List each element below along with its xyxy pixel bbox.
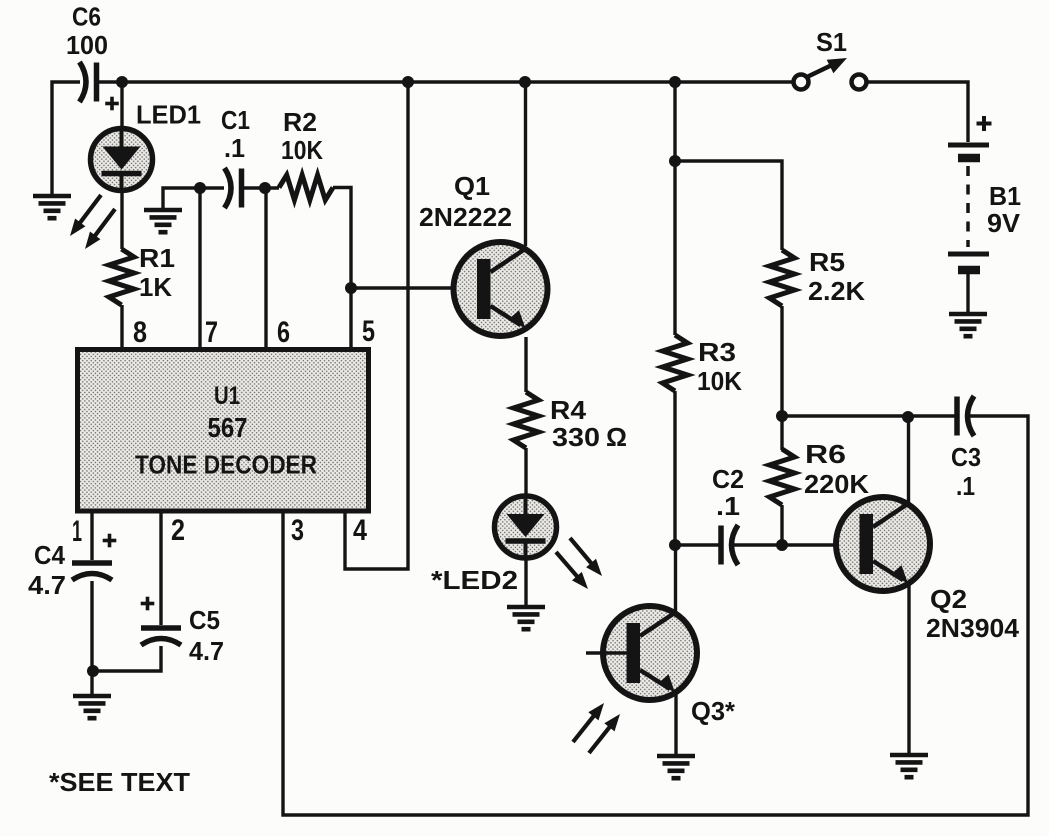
svg-text:*SEE TEXT: *SEE TEXT (49, 767, 190, 797)
svg-text:C4: C4 (34, 540, 65, 570)
svg-text:C2: C2 (712, 464, 744, 494)
wire C6 left lead and drop to ground (52, 82, 80, 194)
wire +V to pin4 jog (345, 82, 408, 569)
pin number 1 (72, 515, 82, 548)
wire LED2 to ground (524, 558, 527, 605)
LED LED2 (495, 496, 557, 558)
label S1 (816, 27, 847, 57)
wire C2 node to Q3 collector (674, 545, 677, 613)
battery B1 cell1 long plate (948, 143, 989, 148)
svg-text:330: 330 (552, 422, 600, 452)
label LED1 (136, 100, 201, 130)
wire S1 to battery (867, 82, 968, 142)
label R3 value 10K (697, 366, 742, 396)
label B1 (989, 181, 1021, 211)
switch S1 arm (808, 58, 847, 77)
wire rail to R3 (673, 82, 676, 335)
svg-text:.1: .1 (956, 471, 975, 501)
node dot pin5/Q1 base (345, 282, 357, 294)
svg-text:S1: S1 (816, 27, 847, 57)
label Q3* (691, 696, 736, 726)
svg-text:2N3904: 2N3904 (926, 613, 1020, 643)
label 100 (66, 30, 108, 60)
LED LED1 (91, 129, 153, 191)
wire pin 6 (264, 188, 267, 350)
svg-text:4: 4 (353, 514, 367, 547)
label 2N3904 (926, 613, 1020, 643)
pin number 8 (133, 316, 147, 349)
label Q2 (930, 584, 967, 614)
resistor R6 (770, 449, 795, 505)
pin number 3 (291, 514, 304, 547)
svg-text:5: 5 (362, 315, 375, 348)
switch S1 pole (794, 75, 809, 90)
node dot pin6/C1/R2 (259, 182, 271, 194)
label R2 (283, 107, 317, 137)
resistor R3 (663, 335, 688, 391)
node dot C4/C5 ground (87, 665, 99, 677)
svg-text:4.7: 4.7 (28, 570, 66, 600)
wire C4 to ground node (90, 581, 93, 694)
label R5 (809, 247, 845, 277)
wire pin 7 (198, 188, 201, 350)
pin number 5 (362, 315, 375, 348)
wire R4 to LED2 (524, 448, 527, 497)
svg-text:9V: 9V (987, 208, 1021, 238)
label C6 (72, 2, 101, 32)
svg-text:Q2: Q2 (930, 584, 967, 614)
wire Q3 emitter to ground (674, 693, 677, 754)
svg-text:Ω: Ω (606, 422, 627, 452)
svg-text:567: 567 (208, 412, 248, 443)
ground below C4 (73, 696, 111, 718)
wire pin 2 to C5 (159, 511, 162, 625)
wire rail to R6 (780, 416, 783, 450)
wire ground stub to pin7 node (163, 188, 200, 208)
svg-text:C1: C1 (221, 105, 250, 135)
node dot rail/pin4 branch (402, 76, 414, 88)
polarity + of C5 (141, 597, 155, 611)
capacitor C2 (721, 525, 738, 565)
ground below LED2 (507, 607, 545, 629)
svg-text:R4: R4 (550, 395, 587, 425)
wire C6 to node (99, 80, 122, 83)
wire R5 to lower rail (780, 306, 783, 416)
wire C3 to right edge loop (283, 416, 1028, 815)
transistor Q3 (603, 606, 697, 700)
light arrow LED1 a (70, 195, 101, 236)
node dot rail/Q1 collector (519, 76, 531, 88)
pin number 6 (277, 316, 290, 349)
label C4 (34, 540, 65, 570)
wire R1 to pin 8 (120, 305, 123, 350)
svg-text:LED1: LED1 (136, 100, 201, 130)
capacitor C3 (957, 396, 974, 436)
label R6 value 220K (804, 469, 869, 499)
wire R2 to pin 5 (333, 188, 351, 351)
label 1K (139, 272, 172, 302)
battery B1 dashed link (966, 166, 970, 247)
svg-text:4.7: 4.7 (189, 636, 224, 666)
ground below Q3 (657, 756, 695, 778)
svg-text:.1: .1 (224, 133, 245, 163)
pin number 7 (205, 316, 218, 349)
polarity + of C4 (103, 534, 117, 548)
svg-text:R6: R6 (805, 439, 846, 469)
label C2 value .1 (716, 491, 740, 521)
label Q1 (454, 171, 490, 201)
label C4 value 4.7 (28, 570, 66, 600)
wire node to C1 (200, 186, 224, 189)
wire C1 to node (244, 186, 279, 189)
wire Q1 collector (524, 82, 527, 246)
label R2 value 10K (281, 135, 323, 165)
label R6 (805, 439, 846, 469)
node dot R5/R6 (776, 410, 788, 422)
light arrow LED2 b (556, 552, 588, 589)
svg-text:.1: .1 (716, 491, 740, 521)
wire mid rail to C3 (782, 414, 957, 417)
ground at C1 (144, 210, 182, 232)
svg-text:2: 2 (171, 514, 185, 547)
label C1 value .1 (224, 133, 245, 163)
svg-text:C6: C6 (72, 2, 101, 32)
wire Q2 collector (907, 417, 910, 504)
node dot C2/R6/Q2 base (776, 539, 788, 551)
label R4 value 330 ohm (552, 422, 627, 452)
pin number 4 (353, 514, 367, 547)
resistor R2 (279, 175, 333, 200)
svg-text:U1: U1 (214, 382, 240, 410)
svg-text:3: 3 (291, 514, 304, 547)
light arrow into Q3 a (573, 703, 604, 742)
svg-text:1K: 1K (139, 272, 172, 302)
wire LED1 to R1 (120, 190, 123, 249)
svg-text:TONE DECODER: TONE DECODER (135, 450, 317, 480)
transistor Q2 (836, 497, 930, 591)
svg-text:8: 8 (133, 316, 147, 349)
svg-text:R3: R3 (698, 337, 736, 367)
light arrow into Q3 b (589, 714, 620, 753)
label 2N2222 (419, 202, 512, 232)
ground below battery (949, 314, 987, 336)
battery B1 cell2 long plate (948, 252, 989, 257)
capacitor C6 (80, 62, 97, 102)
label TONE DECODER (135, 450, 317, 480)
wire C2 to base node (731, 543, 782, 546)
wire R3 to C2 node (673, 391, 676, 546)
svg-text:B1: B1 (989, 181, 1021, 211)
node dot rail/R3 branch (669, 76, 681, 88)
resistor R4 (514, 392, 539, 448)
switch S1 throw (852, 75, 867, 90)
pin number 2 (171, 514, 185, 547)
battery B1 cell2 short plate (958, 266, 980, 275)
svg-text:R5: R5 (809, 247, 845, 277)
label C5 (189, 605, 220, 635)
node dot Q2 collector branch (902, 411, 914, 423)
svg-text:C3: C3 (951, 442, 981, 472)
wire branch to R5 (675, 161, 782, 250)
base stub of Q3 (586, 651, 627, 655)
label 567 (208, 412, 248, 443)
svg-text:*LED2: *LED2 (431, 565, 518, 595)
svg-text:1: 1 (72, 515, 82, 548)
ground left of C6 (33, 196, 71, 218)
svg-text:Q3*: Q3* (691, 696, 736, 726)
label C3 (951, 442, 981, 472)
svg-text:2N2222: 2N2222 (419, 202, 512, 232)
svg-text:Q1: Q1 (454, 171, 490, 201)
wire node to LED1 (120, 82, 123, 130)
IC U1 body (78, 350, 369, 512)
wire Q2 emitter to ground (907, 585, 910, 754)
label C3 value .1 (956, 471, 975, 501)
node dot C6/+V (116, 76, 128, 88)
svg-text:R2: R2 (283, 107, 317, 137)
wire battery to ground (966, 274, 969, 312)
wire node to C2 (675, 543, 721, 546)
label C5 value 4.7 (189, 636, 224, 666)
polarity + of B1 (977, 116, 992, 131)
wire pin 1 to C4 (90, 511, 93, 560)
svg-text:10K: 10K (281, 135, 323, 165)
wire Q1 emitter to R4 (524, 337, 527, 392)
ground below Q2 (890, 755, 928, 777)
capacitor C4 (72, 563, 112, 580)
capacitor C1 (225, 168, 242, 208)
svg-text:2.2K: 2.2K (808, 276, 865, 306)
battery B1 cell1 short plate (958, 154, 980, 163)
svg-text:220K: 220K (804, 469, 869, 499)
svg-text:7: 7 (205, 316, 218, 349)
svg-text:C5: C5 (189, 605, 220, 635)
note *SEE TEXT (49, 767, 190, 797)
label R1 (139, 243, 175, 273)
svg-text:6: 6 (277, 316, 290, 349)
svg-text:10K: 10K (697, 366, 742, 396)
light arrow LED1 b (85, 209, 115, 249)
transistor Q1 (454, 242, 548, 336)
polarity + of C6 (105, 97, 119, 111)
label *LED2 (431, 565, 518, 595)
label U1 (214, 382, 240, 410)
svg-text:100: 100 (66, 30, 108, 60)
node dot C2 left (669, 539, 681, 551)
label R5 value 2.2K (808, 276, 865, 306)
label R3 (698, 337, 736, 367)
wire C5 to ground node (93, 646, 161, 671)
label 9V (987, 208, 1021, 238)
label C2 (712, 464, 744, 494)
wire base node to Q2 (782, 543, 861, 546)
capacitor C5 (141, 628, 181, 645)
svg-text:R1: R1 (139, 243, 175, 273)
resistor R5 (770, 250, 795, 306)
label R4 (550, 395, 587, 425)
wire R6 to base node (780, 505, 783, 546)
node dot R5 branch (669, 155, 681, 167)
label C1 (221, 105, 250, 135)
node dot pin7/C1 (194, 182, 206, 194)
wire top supply rail (122, 80, 792, 83)
wire pin5 node to Q1 base (351, 286, 478, 289)
light arrow LED2 a (570, 538, 602, 576)
resistor R1 (109, 249, 134, 305)
